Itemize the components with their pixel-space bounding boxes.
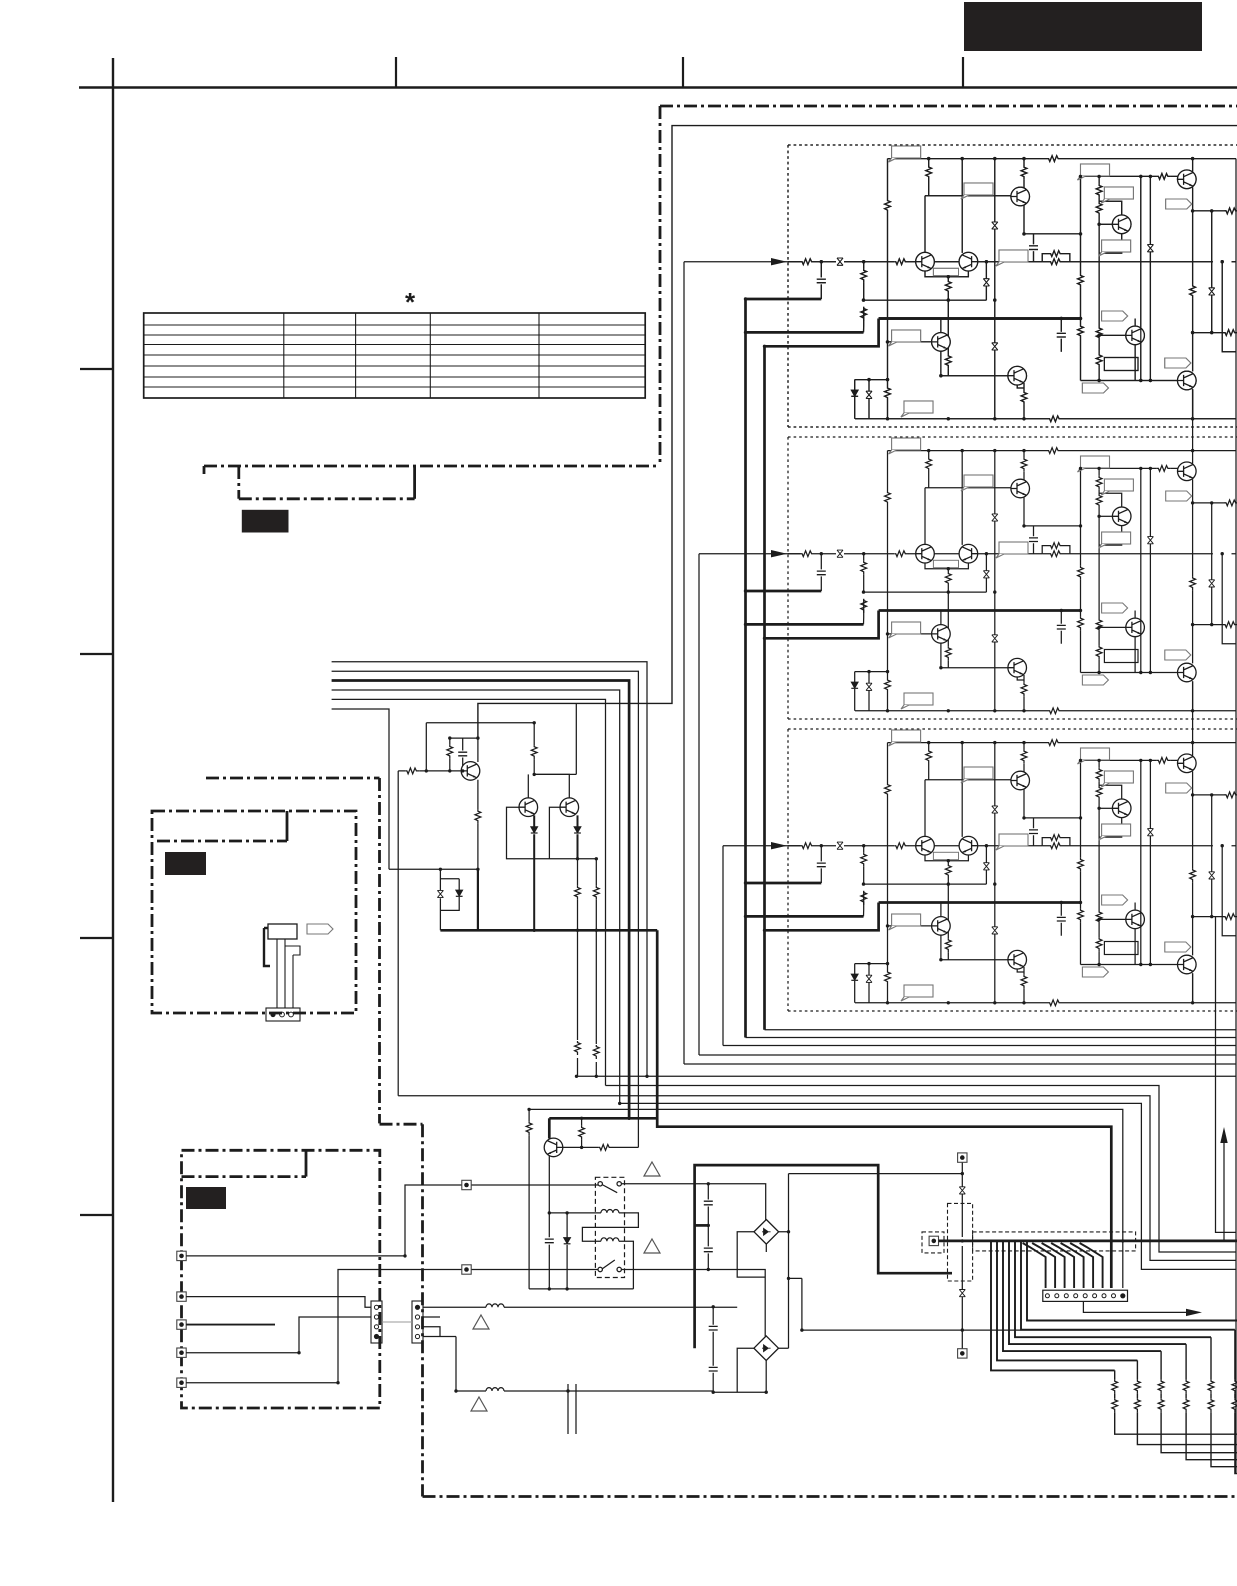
resistor R-g1: [1078, 274, 1084, 288]
resistor R-in2: [894, 259, 908, 265]
transformer wire y1391: [456, 1337, 766, 1393]
bus tap1 CH3: [746, 882, 822, 885]
bus corner line y1064: [684, 1063, 1236, 1065]
label callout cb6: [1099, 240, 1131, 256]
coil wiring: [549, 1213, 638, 1289]
Q13 base line: [563, 1146, 639, 1148]
flat cable arrow: [1083, 1301, 1188, 1312]
relay switch 2: [598, 1267, 602, 1271]
jack connector: [266, 1008, 300, 1021]
fan wire 4: [1009, 1242, 1186, 1344]
relay drive terminal B: [462, 1265, 471, 1274]
emitter label box: [933, 268, 958, 275]
chassis boundary horizontal y466: [204, 465, 660, 468]
chassis boundary left dash-dot: [659, 106, 662, 466]
connector pin 8: [1112, 1294, 1116, 1298]
top supply rail: [888, 158, 1237, 160]
cross terminal top: [958, 1153, 967, 1162]
resistor R-f1: [861, 269, 867, 283]
driver pair vertical x1150.4: [1149, 176, 1151, 380]
connector pin 5: [1083, 1294, 1087, 1298]
thick bottom bus path: [549, 930, 1111, 1288]
Q9 emitter: [1192, 389, 1194, 419]
connector pin 4: [1074, 1294, 1078, 1298]
transistor Q9: [1178, 371, 1197, 390]
input terminal T5: [177, 1378, 186, 1387]
Q6 collector: [940, 319, 942, 333]
BR2 connections: [737, 1348, 788, 1392]
pin drop 3: [1042, 1243, 1065, 1288]
fan wire 1: [991, 1242, 1115, 1370]
jack prongs: [277, 939, 300, 1008]
Q2 emitter: [1192, 187, 1194, 211]
Q7 emitter: [1134, 345, 1136, 381]
boundary stub at x204: [203, 466, 206, 474]
left drop x398.2: [397, 771, 399, 1096]
connector pin 7: [1102, 1294, 1106, 1298]
arrow CH1: [771, 258, 787, 265]
cascade column 4: [1186, 1344, 1237, 1460]
input feeder CH1: [684, 262, 801, 1064]
bus row y1085.5 staircase: [606, 1086, 1237, 1253]
label rect cb11: [1104, 358, 1138, 371]
pin drop 2: [1032, 1243, 1055, 1288]
inner amp board solid outline: [478, 126, 1237, 739]
frame tick left y938: [80, 937, 113, 939]
bus tap2 CH3: [746, 915, 864, 918]
cap glyph2: [992, 343, 998, 350]
bridge rectifier BR2: [754, 1336, 779, 1361]
Q12 base: [549, 807, 559, 859]
dashed shield left: [922, 1232, 944, 1253]
Q10 collector: [477, 738, 479, 762]
box3 header line: [182, 1175, 307, 1178]
input feeder CH2: [699, 554, 801, 1055]
resistor R-v2: [885, 387, 891, 401]
resistor R-in1: [801, 259, 815, 265]
bus tap1 CH1: [746, 298, 822, 301]
switch1 wire right: [621, 1184, 765, 1221]
Q7 collector: [1134, 319, 1136, 327]
bundle wire L2: [332, 671, 639, 1147]
transistor Q1: [1011, 187, 1030, 206]
line y380.5: [1081, 380, 1178, 382]
warning triangle 4: [471, 1397, 487, 1411]
cascade column 6: [1235, 1330, 1237, 1474]
Q6 base line: [888, 341, 932, 343]
resistor R-h1: [1096, 184, 1102, 198]
input terminal T1: [177, 1251, 186, 1260]
diode branch x440.4: [439, 869, 441, 930]
cap stack x708.3: [707, 1184, 709, 1270]
line y210.9: [1193, 210, 1226, 212]
Q3 emitter loop: [1099, 234, 1122, 254]
label callout cb4: [1101, 187, 1133, 203]
bridge feed vertical x788.5: [788, 1174, 790, 1349]
right page edge bus: [1235, 159, 1237, 1474]
bus tap3 CH2: [765, 611, 879, 639]
frame tick top x683: [682, 57, 684, 87]
page link arrow vertical: [1223, 1137, 1225, 1241]
cap C-g: [1061, 319, 1080, 352]
resistor R-r1: [581, 1118, 583, 1147]
relay driver thick feed: [548, 1118, 551, 1138]
cap C-relay: [545, 1239, 554, 1243]
Q12 emitter diode: [577, 815, 579, 858]
sub-board outline box1: [239, 466, 415, 499]
bus corner line y1029.7: [765, 1029, 1237, 1031]
resistor Rp1: [449, 738, 451, 771]
Q1 emitter path: [1024, 206, 1081, 234]
bundle wire L6: [332, 709, 389, 869]
dots T wires: [403, 1254, 406, 1257]
Q7 base: [1099, 334, 1126, 336]
fan wire 6: [1021, 1242, 1235, 1330]
warning triangle 1: [644, 1162, 660, 1176]
transistor Q10: [461, 762, 480, 781]
link y774.4: [534, 703, 576, 774]
input terminal T3: [177, 1320, 186, 1329]
board connector col1: [371, 1301, 382, 1343]
resistor R-h4: [1096, 353, 1102, 367]
vertical x863.7 chain: [863, 262, 865, 333]
Q11 collector: [527, 774, 529, 797]
T1 wire: [186, 1185, 462, 1256]
parallel RC pair: [1042, 254, 1070, 262]
T4 wire: [186, 1317, 371, 1353]
input terminal T2: [177, 1292, 186, 1301]
long vertical x1192.6: [1192, 211, 1194, 419]
cap glyph1: [992, 222, 998, 229]
pin drop 6: [1070, 1243, 1093, 1288]
relay coil 1: [601, 1210, 619, 1213]
frame tick left y369: [80, 368, 113, 370]
title block bar: [964, 2, 1202, 51]
resistor R-k1: [1190, 284, 1196, 298]
connector pin 3: [1064, 1294, 1068, 1298]
rail dropper x962.2: [961, 159, 963, 253]
jack body: [268, 924, 297, 939]
board connector col2: [412, 1301, 423, 1343]
warning triangle 3: [473, 1315, 489, 1329]
diode branch x459.2: [440, 879, 459, 911]
bus tap3 CH3: [765, 903, 879, 931]
main thick supply path: [695, 1165, 952, 1348]
diff pair transistor Q5: [959, 252, 978, 271]
cascade column 3: [1161, 1351, 1237, 1453]
Q2 collector: [1192, 159, 1194, 172]
vertical x1211.7: [1211, 211, 1213, 333]
Q11 base loop: [507, 807, 597, 859]
bus tap2 CH1: [746, 331, 864, 334]
bus tap2 CH2: [746, 623, 864, 626]
AC cord pair: [568, 1384, 576, 1434]
edge vertical x1215.5: [1216, 917, 1237, 1233]
bundle wire L1: [332, 662, 647, 1077]
input feeder CH3: [723, 846, 801, 1046]
connector pin 1: [1045, 1294, 1049, 1298]
Q8 emitter joint: [1017, 385, 1024, 388]
bus corner line y1045.5: [723, 1045, 1236, 1047]
feedback line y300: [864, 299, 987, 301]
lower cap stack x713.2: [712, 1307, 714, 1392]
Q1 collector dropper: [1023, 159, 1025, 189]
diff tail network: [925, 271, 968, 376]
amplifier channel 3: [788, 729, 1237, 1011]
main thick speaker bus y1241: [939, 1240, 1237, 1243]
bus row y1076.3: [577, 1075, 1237, 1077]
pin drop 5: [1061, 1243, 1084, 1288]
fan wire 2: [997, 1242, 1137, 1360]
Q10 emitter resistor: [477, 780, 479, 870]
resistor R-f2: [861, 307, 867, 321]
x596.3 chain down: [595, 859, 597, 1077]
cap Cp1: [462, 738, 464, 771]
zener D1: [854, 380, 856, 419]
link y878.7: [440, 878, 459, 880]
long vertical x887.5: [887, 159, 889, 419]
series cap C-in: [837, 258, 843, 265]
relay coil 2: [601, 1238, 619, 1241]
channel dotted border: [788, 145, 1237, 427]
vertical x1222.2 output: [1222, 262, 1236, 352]
page frame horizontal rule: [79, 86, 1237, 88]
long vertical x1080.5: [1080, 176, 1082, 380]
cap C-a: [1033, 234, 1035, 262]
transistor Q8: [1008, 366, 1027, 385]
box2 header line: [157, 840, 287, 843]
label callout cb2: [961, 183, 993, 199]
transistor Q13: [544, 1138, 563, 1157]
frame tick top x963: [962, 57, 964, 87]
thick bus y930.3: [440, 929, 657, 932]
relay switch 1: [598, 1182, 602, 1186]
bundle wire L4: [332, 690, 620, 1103]
line y869.3: [389, 868, 478, 870]
connector link: [382, 1321, 412, 1323]
resistor R-r2 chain x529.1: [528, 1109, 530, 1289]
pin drop 1: [1023, 1243, 1046, 1288]
dashed shield vertical: [948, 1203, 973, 1281]
fan wire 3: [1003, 1242, 1161, 1351]
resistor R-h2: [1096, 202, 1102, 216]
chassis boundary bottom dash-dot: [423, 1495, 1237, 1498]
Q10 emitter to bus: [477, 869, 479, 930]
diode cluster top line: [855, 379, 888, 381]
diode D2: [868, 380, 870, 419]
fan wire 5: [1015, 1242, 1211, 1337]
supply bus B vertical: [763, 346, 766, 1029]
boundary jog y1124: [380, 1123, 423, 1126]
resistor Rp2: [533, 723, 535, 775]
cascade column 2: [1137, 1360, 1237, 1444]
resistor R-g2: [1078, 325, 1084, 339]
mid thick rail: [879, 317, 1081, 320]
transistor Q11: [519, 798, 538, 817]
page frame vertical rule: [112, 58, 114, 1502]
label callout cb13: [901, 401, 933, 417]
bus corner line y1055: [699, 1054, 1236, 1056]
bus row y1109.4 to connector: [529, 1109, 1123, 1288]
col2 pin wires: [423, 1317, 456, 1337]
resistor R-tail: [945, 280, 951, 294]
label callout cb7: [996, 250, 1028, 266]
bridge rectifier BR1: [754, 1220, 779, 1245]
Q13 emitter down: [548, 1156, 550, 1289]
transistor Q12: [560, 798, 579, 817]
amplifier channel 2: [788, 437, 1237, 719]
bus row y1103.4 staircase: [620, 1103, 1236, 1269]
parts table: [144, 313, 646, 398]
arrow CH3: [771, 842, 787, 849]
speaker line junction x801.9: [789, 1278, 802, 1330]
bottom supply rail: [855, 418, 1236, 420]
transistor Q2: [1178, 170, 1197, 189]
flyback diode: [566, 1213, 568, 1289]
base line y770.9: [398, 770, 461, 772]
svg-text:*: *: [405, 287, 416, 317]
pin drop 4: [1051, 1243, 1074, 1288]
inter-channel link x1192.6 a: [1192, 419, 1194, 451]
label callout cb3: [1078, 164, 1110, 180]
rail dropper x928.7: [928, 159, 930, 196]
relay bottom rail: [529, 1288, 633, 1290]
diff pair transistor Q4: [916, 252, 935, 271]
T5 wire: [186, 1270, 462, 1383]
resistor R-v1: [885, 199, 891, 213]
line y1330.1: [802, 1329, 1100, 1331]
bus corner line y1037.5: [746, 1037, 1237, 1039]
BR1 connections: [737, 1232, 788, 1277]
cascade column 5: [1211, 1337, 1237, 1467]
amplifier channel 1: [788, 145, 1237, 427]
frame tick top x396: [395, 57, 397, 87]
Q12 collector: [534, 774, 569, 797]
dashed shield right: [973, 1232, 1136, 1251]
label callout cb12: [1165, 358, 1191, 368]
frame tick left y1215: [80, 1214, 113, 1216]
cap C-b on x821: [820, 262, 822, 299]
board label black box2: [165, 852, 206, 875]
junction dots bottom bus: [645, 1075, 648, 1078]
frame tick left y654: [80, 653, 113, 655]
bundle wire L3 thick: [332, 681, 629, 1119]
T3 stub wire: [186, 1324, 275, 1326]
node line y195.8: [925, 196, 1011, 253]
T2 wire: [186, 1297, 371, 1308]
switch2 wire left: [471, 1269, 598, 1271]
bus tap3 CH1: [765, 319, 879, 347]
switch1 wire left: [471, 1184, 598, 1186]
label callout cb10: [1102, 311, 1128, 321]
switch2 wire right: [621, 1270, 765, 1337]
headphone cross vertical: [961, 1162, 963, 1348]
label callout cb1: [889, 146, 921, 162]
label callout cb14: [1082, 383, 1108, 393]
phones board dash-dot branch horizontal y778: [206, 777, 380, 780]
bundle wire L5: [332, 699, 606, 1085]
pin drop 7: [1080, 1243, 1103, 1288]
phones board box2 outline: [152, 811, 356, 1013]
connector pin 2: [1055, 1294, 1059, 1298]
jack frame lines: [264, 928, 270, 966]
transistor Q6: [932, 333, 951, 352]
boundary left vertical x422.5: [421, 1124, 424, 1496]
board label black box1: [242, 510, 289, 533]
Q11 emitter diode: [533, 815, 535, 930]
connector pin 6: [1093, 1294, 1097, 1298]
arrow CH2: [771, 550, 787, 557]
relay drive terminal A: [462, 1180, 471, 1189]
relay outline dashed: [595, 1177, 624, 1277]
label callout cb9: [889, 330, 921, 346]
main signal line: [788, 261, 1236, 263]
bus row y1095.7 staircase: [398, 1096, 1236, 1261]
resistor R-e6: [945, 354, 951, 368]
inter-channel link x1192.6 b: [1192, 711, 1194, 743]
Q8 emitter resistor: [1023, 383, 1025, 419]
supply bus A vertical: [744, 299, 747, 1038]
thick stub to cap stack: [695, 1224, 709, 1227]
AC line y1173.6: [789, 1173, 963, 1175]
connector pin 9: [1120, 1293, 1125, 1298]
subcircuit top link y738.1: [450, 737, 478, 739]
base line y375.7: [941, 375, 1011, 377]
long vertical x1099.1: [1098, 176, 1100, 380]
Q3 collector loop: [1099, 201, 1122, 215]
bus dots: [425, 769, 428, 772]
transformer wire y1306.8: [423, 1306, 737, 1308]
fan wire 7: [1027, 1242, 1237, 1321]
board label black box3: [186, 1187, 226, 1209]
transistor Q3: [1112, 215, 1131, 234]
dropper x986.4: [985, 262, 987, 300]
Q6 emitter: [940, 351, 942, 376]
bus tap1 CH2: [746, 590, 822, 593]
chassis boundary top dash-dot: [660, 105, 1237, 108]
connector strip CN: [1043, 1290, 1128, 1301]
phones board dash-dot vertical x379.5: [378, 778, 381, 1123]
line y332.6: [1193, 332, 1225, 334]
x577.5 chain down: [577, 859, 579, 1077]
pre-driver line y176.4: [1081, 175, 1178, 177]
terminal board box3 outline: [182, 1150, 380, 1408]
long vertical x994.8: [994, 159, 996, 419]
driver pair vertical x1140.8: [1140, 176, 1142, 380]
Q3 base: [1099, 223, 1112, 225]
warning triangle 2: [644, 1239, 660, 1253]
cross terminal left: [929, 1236, 938, 1245]
cross terminal bottom: [958, 1349, 967, 1358]
cascade column 1: [1115, 1370, 1237, 1434]
transistor Q7: [1126, 326, 1145, 345]
link y722.8: [426, 723, 534, 771]
label callout cb5: [1166, 199, 1192, 209]
input terminal T4: [177, 1348, 186, 1357]
jack callout: [307, 924, 333, 934]
resistor R-h3: [1096, 327, 1102, 341]
